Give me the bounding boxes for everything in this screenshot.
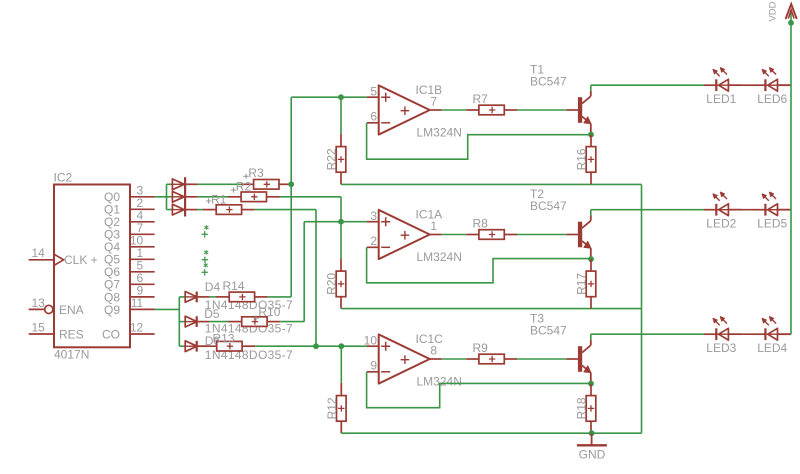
wire R9 to transistor base [517,358,566,360]
svg-text:BC547: BC547 [530,75,567,89]
node junction T3 emitter [588,381,594,387]
pin CLK (pin 14) of IC2 with clock wedge [29,246,98,267]
resistor R9 [466,354,517,364]
pin Q3 (pin 7) of IC2 [104,221,155,242]
wire diode row2 to R2 [185,196,241,198]
power symbol VDD arrow [786,4,797,19]
resistor R3 [254,180,292,190]
net origin cross marks [202,225,209,275]
LED LED6 [753,68,790,92]
svg-text:R17: R17 [574,273,588,295]
svg-text:Q9: Q9 [104,303,120,317]
LED LED4 [753,317,790,341]
wire R2 to IC1A branch [280,197,342,222]
wire IC1A input from R2 branch [341,221,367,223]
LED LED3 [704,317,741,341]
svg-text:CLK +: CLK + [64,253,98,267]
diode D1 top of stack [172,179,184,190]
op-amp IC1C LM324N [367,334,442,383]
resistor R7 [466,105,517,115]
transistor T3 BC547 [566,334,591,383]
resistor R17 [586,259,596,309]
wire VDD supply vertical [790,13,792,335]
pin Q4 (pin 10) of IC2 [104,234,155,255]
transistor T2 BC547 [566,210,591,259]
LED LED1 [704,68,741,92]
diode anode bus vertical [167,184,173,209]
wire vertical node A down to R14 [290,184,292,297]
svg-text:5: 5 [370,84,377,98]
anode bus vertical for D4 D5 D6 [178,297,180,346]
svg-text:R22: R22 [325,148,339,170]
svg-text:IC1B: IC1B [416,83,443,97]
resistor R18 [586,384,596,434]
svg-text:2: 2 [370,234,377,248]
svg-text:8: 8 [430,344,437,358]
resistor R13 [197,341,256,351]
transistor T1 BC547 [566,85,591,134]
svg-text:LED3: LED3 [706,341,736,355]
wire ground rail bottom [341,432,641,434]
node junction R20 top / IC1A input [338,219,344,225]
node junction T1 emitter [588,132,594,138]
diode D2 middle of stack [172,191,184,202]
node junction R22 top / IC1B input [338,94,344,100]
svg-text:7: 7 [430,95,437,109]
LED LED2 [704,192,741,216]
svg-text:R2: R2 [236,180,252,194]
resistor R22 [336,97,346,184]
LED LED5 [753,192,790,216]
svg-text:GND: GND [579,447,606,461]
wire ground rail top [341,183,642,185]
node junction T2 emitter [588,256,594,262]
pin Q9 (pin 11) of IC2 [104,296,155,317]
wire ground rail right vertical [641,184,643,433]
IC 4017N counter U-box IC2 [54,185,130,348]
svg-text:15: 15 [32,321,46,335]
wire LED6 to VDD line [778,84,792,86]
wire Q0 to diode anode bus [155,196,173,198]
wire ground rail middle [341,308,642,310]
resistor R1 [216,205,255,215]
svg-text:LED4: LED4 [757,341,787,355]
diode D6 1N4148DO35-7 [179,341,209,352]
wire LED1 to LED6 [728,84,753,86]
pin numbers of IC1C [364,333,438,372]
resistor R20 [336,222,346,309]
wire LED5 to VDD line [778,209,792,211]
svg-text:3: 3 [370,209,377,223]
wire R14 up to node A [268,296,292,298]
svg-text:R1: R1 [211,192,227,206]
svg-text:LED5: LED5 [757,216,787,230]
svg-text:IC2: IC2 [54,170,73,184]
resistor R16 [586,135,596,185]
wire IC1A output to R8 [442,234,467,236]
resistor R2 [241,192,279,202]
svg-text:11: 11 [131,296,144,310]
svg-text:4017N: 4017N [54,348,89,362]
resistor R10 [209,317,280,327]
label R3 with origin cross [243,166,264,180]
node junction row3 / IC1C input [313,343,319,349]
pin ENA (pin 13) of IC2 with inversion bubble [29,296,84,317]
wire diode row1 to R3 [185,183,254,185]
op-amp IC1B LM324N [367,85,442,134]
svg-text:VDD: VDD [768,1,779,21]
wire T3 collector to LED3 [591,333,704,335]
pin CO (pin 12) of IC2 [102,321,155,342]
pin Q1 (pin 2) of IC2 [104,196,155,217]
svg-text:D5: D5 [204,307,220,321]
svg-text:14: 14 [32,246,46,260]
wire diode row3 to R1 [185,209,216,211]
svg-text:R14: R14 [223,279,245,293]
node junction ground [589,430,595,436]
label R1 with origin cross [206,192,227,206]
svg-text:R18: R18 [574,397,588,419]
wire IC1B feedback from T1 emitter [367,123,591,159]
pin Q8 (pin 9) of IC2 [104,284,155,305]
svg-text:LM324N: LM324N [417,250,462,264]
svg-text:R13: R13 [213,332,235,346]
svg-text:R3: R3 [248,166,264,180]
label R2 with origin cross [231,180,252,194]
diode D5 1N4148DO35-7 [179,316,209,327]
svg-text:R8: R8 [473,217,489,231]
pin numbers of IC1B [370,84,437,123]
node junction R3 / vertical [288,181,294,187]
diode D3 bottom of stack [172,204,184,215]
resistor R8 [466,230,517,240]
svg-text:R20: R20 [325,273,339,295]
svg-text:LED2: LED2 [706,216,736,230]
svg-text:ENA: ENA [59,303,84,317]
diode stack cathode bar [184,177,186,216]
node junction VDD [788,20,794,26]
wire LED4 to VDD line [778,333,792,335]
wire IC1C feedback from T3 emitter [367,372,591,408]
pin Q7 (pin 6) of IC2 [104,271,155,292]
wire T2 collector to LED2 [591,209,704,211]
wire R13 to IC1C noninverting input [255,345,367,347]
pin numbers of IC1A [370,209,437,248]
svg-text:CO: CO [102,327,120,341]
wire R7 to transistor base [517,109,566,111]
ground symbol GND [577,433,607,445]
resistor R14 [209,292,267,302]
wire IC1B output to R7 [442,109,467,111]
wire LED3 to LED4 [728,333,753,335]
pin RES (pin 15) of IC2 [29,321,84,342]
svg-text:R12: R12 [325,397,339,419]
svg-text:10: 10 [364,333,378,347]
svg-text:LED1: LED1 [706,92,736,106]
pin Q5 (pin 1) of IC2 [104,246,155,267]
svg-text:BC547: BC547 [530,199,567,213]
wire node A row to R22 top [291,96,367,98]
wire T1 collector to LED1 [591,84,704,86]
wire vertical node A to IC1B noninverting input [290,97,292,184]
wire IC1A feedback from T2 emitter [367,247,591,282]
svg-text:R16: R16 [574,148,588,170]
pin Q2 (pin 4) of IC2 [104,209,155,230]
node junction R12 top [338,343,344,349]
svg-text:13: 13 [32,296,46,310]
svg-text:1: 1 [430,219,437,233]
label R10 with origin cross [253,305,280,321]
wire IC1C output to R9 [442,358,467,360]
wire R8 to transistor base [517,234,566,236]
svg-text:R9: R9 [473,341,489,355]
svg-text:IC1A: IC1A [416,208,443,222]
wire R1 to IC1C branch [255,210,316,347]
resistor R12 [337,346,347,433]
svg-text:12: 12 [130,321,144,335]
svg-text:R7: R7 [473,92,489,106]
svg-text:IC1C: IC1C [416,332,444,346]
wire Q9 to D4-D6 anode bus [155,308,180,310]
pin Q6 (pin 5) of IC2 [104,259,155,280]
svg-text:D4: D4 [205,280,221,294]
svg-text:BC547: BC547 [530,324,567,338]
op-amp IC1A LM324N [367,210,442,259]
wire R10 to IC1A noninverting branch [280,222,341,322]
svg-text:9: 9 [370,359,377,373]
wire LED2 to LED5 [728,209,753,211]
svg-text:R10: R10 [258,305,280,319]
svg-text:RES: RES [59,327,84,341]
svg-text:LM324N: LM324N [417,126,462,140]
diode D4 1N4148DO35-7 [179,292,209,303]
pin Q0 (pin 3) of IC2 [104,184,155,205]
svg-text:6: 6 [370,110,377,124]
svg-text:LED6: LED6 [757,92,787,106]
